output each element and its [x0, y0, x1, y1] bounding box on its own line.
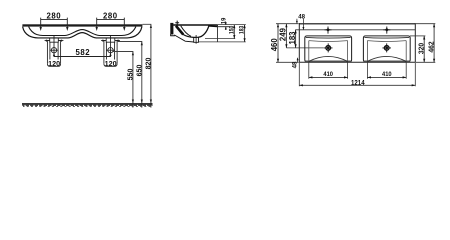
svg-text:280: 280: [103, 12, 118, 21]
582 dimension line between trap circles: [54, 53, 111, 57]
svg-text:183: 183: [239, 26, 246, 35]
bowl 2 tap hole: [383, 27, 390, 34]
svg-text:650: 650: [134, 65, 143, 77]
extension lines for 150/183/19: [218, 24, 246, 26]
820 dimension line: [143, 24, 151, 107]
bowl 1 tap hole: [325, 27, 332, 34]
svg-text:320: 320: [416, 43, 425, 54]
183 dim: [295, 30, 297, 48]
main rectangle: [299, 23, 415, 25]
183 dim line: [244, 25, 246, 42]
bowl back wall slope: [199, 26, 209, 37]
460 dim: [276, 24, 299, 63]
120 arrows (left): [45, 40, 64, 42]
svg-text:410: 410: [382, 71, 392, 78]
650 dimension line: [118, 42, 142, 108]
fixing bolt: [175, 21, 179, 27]
dimension 280 (left pair): [41, 18, 68, 28]
svg-text:462: 462: [426, 41, 435, 52]
tap hole line / ledge: [295, 29, 415, 31]
320 dim: [410, 35, 425, 37]
deck top: [173, 24, 217, 26]
svg-text:150: 150: [229, 26, 236, 35]
dimension 280 (right pair): [97, 18, 125, 28]
bowl inner front wall: [181, 26, 191, 37]
bowl 1 outline: [305, 36, 352, 62]
svg-text:249: 249: [279, 27, 288, 41]
249 dim: [285, 24, 287, 48]
48 top dim leaders: [297, 19, 304, 30]
svg-text:280: 280: [47, 12, 62, 21]
basin rim bar (front view top edge): [22, 24, 142, 26]
front wall section (thick): [176, 26, 183, 35]
48 bottom dim: [297, 58, 299, 63]
svg-text:120: 120: [105, 59, 117, 68]
basin back edge: [217, 25, 219, 42]
basin inner outline (front): [29, 27, 136, 36]
svg-text:820: 820: [144, 58, 153, 70]
410 dim (right bowl): [367, 62, 406, 79]
svg-text:550: 550: [125, 69, 134, 81]
1214 dim: [299, 63, 415, 87]
wall bracket plate: [170, 23, 173, 35]
svg-text:183: 183: [288, 31, 297, 45]
19 dim arrows: [225, 27, 227, 30]
floor hatch band: [22, 103, 153, 105]
bowl 2 outline: [363, 36, 410, 62]
150 dim line: [233, 25, 235, 39]
svg-text:19: 19: [221, 18, 228, 25]
550 dimension line: [113, 52, 133, 108]
bowl bottom / underside: [183, 34, 199, 37]
410 dim (left bowl): [309, 62, 348, 79]
120 arrows (right): [101, 40, 120, 42]
svg-text:582: 582: [76, 48, 91, 57]
svg-text:120: 120: [48, 59, 60, 68]
right drain + trap assembly: [104, 36, 117, 67]
drain stub (side): [193, 37, 199, 42]
bowl 2 drain: [384, 46, 389, 51]
basin outer outline (front): [23, 27, 142, 38]
svg-text:48: 48: [298, 13, 305, 20]
svg-text:1214: 1214: [351, 80, 365, 87]
svg-text:410: 410: [323, 71, 333, 78]
svg-text:48: 48: [292, 61, 299, 68]
462 dim: [416, 24, 435, 63]
bowl 1 drain: [326, 46, 331, 51]
left drain + trap assembly: [47, 36, 60, 67]
